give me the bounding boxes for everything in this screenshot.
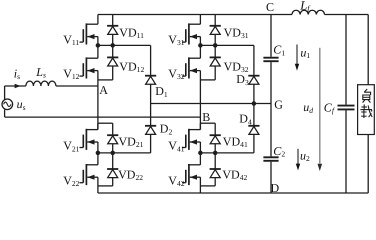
diode VD11 — [107, 15, 118, 46]
diode D2 — [145, 126, 156, 135]
label C1 — [273, 43, 285, 58]
svg-text:Cf: Cf — [324, 100, 335, 115]
capacitor Cf — [338, 106, 355, 110]
label C2 — [273, 144, 285, 159]
svg-text:V21: V21 — [63, 139, 79, 154]
label VD21 — [119, 134, 144, 149]
svg-text:VD41: VD41 — [223, 134, 248, 149]
label VD41 — [223, 134, 248, 149]
svg-text:V11: V11 — [63, 32, 79, 47]
wire D2 bottom — [150, 134, 152, 153]
svg-text:VD11: VD11 — [119, 25, 144, 40]
voltage source us — [2, 99, 13, 110]
svg-text:D4: D4 — [239, 112, 252, 127]
label u1 — [300, 45, 310, 60]
svg-text:u2: u2 — [300, 148, 310, 163]
node D label — [271, 181, 280, 195]
diode VD12 — [98, 45, 118, 80]
diode VD41 — [210, 123, 221, 153]
wire bottom DC rail D-side — [98, 192, 368, 194]
transistor V21 — [80, 123, 98, 153]
label V31 — [168, 32, 184, 47]
label V32 — [168, 66, 184, 81]
label Ls — [35, 65, 46, 80]
svg-text:V32: V32 — [168, 66, 184, 81]
wire D3-D4 column top — [253, 45, 255, 75]
wire load top lead — [367, 15, 369, 85]
label us — [17, 97, 26, 112]
svg-text:G: G — [274, 97, 283, 111]
inductor Lf — [292, 10, 368, 14]
label V41 — [168, 139, 184, 154]
svg-text:B: B — [202, 110, 210, 124]
inductor Ls — [26, 81, 56, 86]
label D3 — [236, 72, 249, 87]
wire neutral rail to G — [151, 103, 271, 105]
svg-text:u1: u1 — [300, 45, 310, 60]
transistor V31 — [182, 15, 200, 46]
wire D1-D2 column top — [150, 45, 152, 75]
transistor V22 — [80, 153, 98, 193]
label Lf — [299, 0, 311, 13]
svg-text:C: C — [266, 0, 274, 14]
junction dot — [96, 151, 101, 156]
capacitor C2 — [263, 157, 278, 161]
wire corner to VD41 — [200, 122, 215, 124]
transistor V41 — [182, 123, 200, 153]
svg-text:D3: D3 — [236, 72, 249, 87]
svg-text:Ls: Ls — [35, 65, 46, 80]
junction dot G rail x D3D4 — [252, 101, 257, 106]
svg-text:is: is — [14, 66, 20, 81]
voltage arrow u2 — [296, 149, 300, 171]
wire load bottom lead — [367, 135, 369, 194]
wire C column top — [270, 15, 272, 57]
node B label — [202, 110, 210, 124]
diode D3 — [248, 76, 259, 85]
wire A leg vertical — [97, 71, 99, 130]
label u2 — [300, 148, 310, 163]
wire upper junction rail left — [98, 44, 151, 46]
label ud — [303, 100, 313, 115]
label V12 — [63, 66, 79, 81]
capacitor C1 — [263, 58, 278, 62]
wire C column bottom — [270, 162, 272, 193]
diode D4 — [248, 126, 259, 135]
wire D3-D4 column middle — [253, 84, 255, 125]
junction dot — [110, 43, 115, 48]
diode VD42 — [200, 153, 220, 186]
label VD32 — [224, 59, 249, 74]
svg-text:V22: V22 — [63, 173, 79, 188]
svg-text:D1: D1 — [155, 84, 168, 99]
label V11 — [63, 32, 79, 47]
label V42 — [168, 173, 184, 188]
svg-text:us: us — [17, 97, 26, 112]
svg-text:C2: C2 — [273, 144, 285, 159]
node G label — [274, 97, 283, 111]
load text 载 — [360, 104, 372, 118]
label V21 — [63, 139, 79, 154]
diode VD31 — [210, 15, 221, 46]
svg-text:VD12: VD12 — [119, 59, 144, 74]
svg-text:VD42: VD42 — [222, 167, 247, 182]
label VD11 — [119, 25, 144, 40]
label VD22 — [118, 167, 143, 182]
label V22 — [63, 173, 79, 188]
label Cf — [324, 100, 335, 115]
wire C column middle — [270, 62, 272, 156]
transistor V11 — [80, 15, 98, 46]
wire top DC rail C-side — [98, 14, 292, 16]
label VD42 — [222, 167, 247, 182]
wire source top lead — [4, 86, 6, 100]
junction dot — [198, 151, 203, 156]
label VD31 — [224, 25, 249, 40]
wire Cf column bottom — [345, 110, 347, 193]
transistor V32 — [182, 45, 200, 78]
wire corner to VD21 — [98, 122, 113, 124]
wire Cf column top — [345, 15, 347, 105]
wire B rail — [5, 116, 201, 118]
label D1 — [155, 84, 168, 99]
label D4 — [239, 112, 252, 127]
wire upper junction rail right — [200, 44, 254, 46]
wire lower junction rail left — [98, 152, 151, 154]
svg-text:VD31: VD31 — [224, 25, 249, 40]
transistor V42 — [182, 153, 200, 193]
wire Ls to node A — [56, 85, 98, 87]
svg-text:D2: D2 — [160, 122, 173, 137]
svg-text:A: A — [99, 83, 108, 97]
svg-text:V41: V41 — [168, 139, 184, 154]
load box — [358, 85, 375, 135]
svg-text:C1: C1 — [273, 43, 285, 58]
junction dot — [96, 43, 101, 48]
load text 负 — [363, 89, 371, 103]
label is — [14, 66, 20, 81]
wire D4 bottom — [253, 134, 255, 153]
junction dot — [198, 43, 203, 48]
svg-text:ud: ud — [303, 100, 313, 115]
svg-text:V12: V12 — [63, 66, 79, 81]
wire is segment — [5, 85, 26, 87]
label VD12 — [119, 59, 144, 74]
transistor V12 — [80, 45, 98, 78]
diode VD32 — [200, 45, 220, 80]
label D2 — [160, 122, 173, 137]
svg-text:D: D — [271, 181, 280, 195]
voltage arrow ud — [318, 48, 323, 171]
node C label — [266, 0, 274, 14]
node A label — [99, 83, 108, 97]
junction dot — [213, 151, 218, 156]
svg-text:VD21: VD21 — [119, 134, 144, 149]
svg-text:VD22: VD22 — [118, 167, 143, 182]
svg-text:V42: V42 — [168, 173, 184, 188]
wire D1-D2 column middle — [150, 84, 152, 125]
svg-text:Lf: Lf — [299, 0, 311, 13]
diode VD22 — [98, 153, 118, 186]
diode VD21 — [107, 123, 118, 153]
current arrow is — [15, 84, 21, 88]
diode D1 — [145, 76, 156, 85]
wire B leg vertical — [199, 71, 201, 130]
svg-text:V31: V31 — [168, 32, 184, 47]
voltage arrow u1 — [295, 45, 299, 71]
junction dot — [110, 151, 115, 156]
wire source bottom lead — [4, 110, 6, 118]
wire lower junction rail right — [200, 152, 254, 154]
junction dot — [213, 43, 218, 48]
